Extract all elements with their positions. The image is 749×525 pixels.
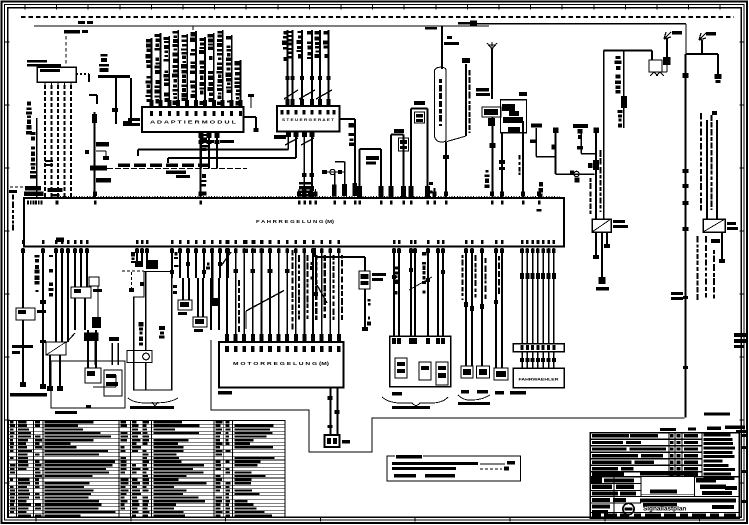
wire from pin turning left y149 (287, 145, 289, 150)
stubs entering FAHRREGELUNG top left cluster (26, 192, 30, 197)
label 4M under battery (123, 121, 131, 126)
labels D1.2 (12, 345, 22, 348)
label above block A100 (27, 60, 47, 63)
border tick marks top (24, 5, 26, 10)
wire x555 vertical (555, 128, 557, 174)
bus line A segment 2 (475, 23, 686, 25)
folgt blatt note (704, 413, 730, 416)
pedal sensor housing 486 (390, 336, 451, 387)
jumper loop P1 over band pins (359, 149, 361, 188)
title block sheet cell (712, 505, 734, 509)
legend line 3 (394, 474, 416, 478)
labels right of enclosure (159, 326, 165, 330)
dashed bus line top (21, 16, 734, 18)
label stack left column (27, 102, 31, 106)
border tick marks left (5, 41, 10, 43)
title block header column lines (668, 433, 670, 476)
switch S1 (16, 308, 35, 320)
system boundary outline (211, 340, 685, 452)
component cluster x84-99 (84, 333, 99, 342)
stub x95 pin (93, 192, 97, 197)
company logo circle (623, 503, 634, 514)
earth arrow symbol above Y511 (487, 42, 497, 49)
connector label 4X4.11 (573, 124, 588, 128)
connector pin blobs at ADAPTIERMODUL top edge (150, 100, 154, 106)
pin numbers FAHRREGELUNG top left (27, 201, 29, 205)
right border marks near title block (741, 434, 747, 437)
wire x116 from battery bar (115, 78, 117, 124)
svg-text:F A H R R E G E L U N G (M): F A H R R E G E L U N G (M) (256, 219, 335, 224)
label K5 (372, 273, 386, 276)
label 486.1 (218, 391, 232, 395)
pin group left C at band bottom (74, 240, 77, 244)
relay K12 wires above (706, 120, 708, 219)
tick labels on left bundle (45, 160, 53, 162)
stub x718 down (717, 54, 719, 76)
title block middle left cells (590, 483, 641, 485)
right exit wire of STEUERGERAET (340, 118, 356, 120)
title block drawing number cell (641, 477, 695, 495)
wire drop x315 (315, 257, 317, 285)
text Bordnetzbatterie (10, 393, 47, 397)
border tick marks right (740, 41, 745, 43)
label stacks above ADAPTIERMODUL wires (146, 39, 151, 42)
stub below 4X4.11 (578, 129, 583, 133)
dashed shield corner (122, 270, 144, 272)
pin group pedal at band bottom (393, 240, 396, 244)
label 4X14 (274, 135, 286, 139)
labels pedal wires (394, 266, 398, 269)
labels 4M1.5 row (200, 140, 214, 143)
mid tick row on FAHRWAEHLER wires (520, 273, 524, 279)
wire down from plug to band (334, 172, 336, 185)
arrow symbol top right 1 (664, 32, 671, 39)
arrow symbol top right 2 (699, 33, 706, 40)
title block header row lines (590, 438, 702, 440)
wire inside enclosure (145, 272, 147, 351)
junction square on arrow1 wire (663, 57, 671, 65)
wire drop from bus A at x442 (441, 26, 443, 70)
wire x95 to FAHRREGELUNG (94, 112, 96, 198)
connector blob x355 at band (353, 183, 358, 196)
label A 1.25 (444, 42, 459, 45)
wire from loop to FAHRREGELUNG x446 (445, 142, 447, 199)
relay K11 (592, 219, 611, 232)
label stacks above STEUERGERAET wires (283, 31, 286, 34)
hook above right exit (250, 97, 252, 108)
link 4X11 to x555 (536, 156, 556, 158)
pin labels between strip and box (521, 352, 523, 369)
labels connector84 wires (461, 255, 463, 258)
relay K2 (46, 342, 66, 355)
wire drop x364 (364, 257, 366, 271)
wire x43 down long (42, 248, 44, 388)
bus line A drop at right end (685, 24, 687, 54)
pin group mid dense at band bottom (171, 240, 174, 244)
title block bottom row (590, 512, 739, 514)
wire cluster x172-228 below band (171, 248, 173, 278)
connector 487 (494, 368, 508, 380)
border tick marks bottom (35, 517, 37, 522)
wires x75-87 down (74, 248, 76, 287)
wire x36 left vertical (36, 118, 38, 197)
labels above bottom pins inside band (56, 238, 64, 242)
connector T3 (178, 300, 192, 310)
wire over to x344 via U (335, 161, 345, 163)
wires above STEUERGERAET (287, 30, 289, 106)
wire x212 to hatched terminal (212, 248, 214, 298)
small box above connector (89, 277, 99, 286)
pin number at x334 band top (334, 201, 337, 205)
wire below solenoid K5 (364, 289, 366, 330)
labels on long wire x685 (671, 292, 683, 295)
wire below K12 right (721, 232, 723, 262)
labels below bus M (166, 171, 186, 175)
valve Y511 actuator (501, 100, 527, 133)
pin group left D at band bottom (136, 240, 139, 244)
inner unit boxes (104, 370, 122, 396)
labels beside K12 wires (700, 113, 702, 119)
label 486 (392, 392, 402, 396)
pin number at x344 band top (343, 201, 346, 205)
bottom stubs STEUERGERAET (287, 132, 289, 146)
wire below sensor B1 (145, 363, 147, 391)
title block revision column dense rows (704, 433, 731, 436)
pin ticks block A100 (44, 82, 46, 85)
label near x460 on bus A (458, 22, 471, 25)
title block frame (590, 433, 739, 519)
pedal inner boxes (395, 358, 407, 378)
hatched terminal blob (211, 298, 221, 306)
wire to connector 817 (481, 248, 483, 366)
wires into MOTORREGELUNG top (226, 248, 228, 342)
valve Y511 side marks (519, 92, 527, 96)
bus line A segment 1 (34, 25, 489, 27)
wire x466 ground branch (465, 64, 467, 136)
housing exit wire (93, 386, 116, 388)
labels inside cable loop (439, 79, 442, 83)
wire from arrow1 down (666, 38, 668, 57)
bus segment top right y50 (604, 50, 652, 52)
op-amp style module box ADAPTIERMODUL (142, 107, 244, 132)
wire bundle from A100 to FAHRREGELUNG dashed (44, 85, 46, 198)
labels along bus M (118, 164, 130, 168)
stub x539 to band (538, 188, 540, 198)
fold mark right border (734, 333, 746, 337)
wire x434 stub to band (434, 188, 436, 198)
wires below Y511 to FAHRREGELUNG (492, 117, 494, 198)
enclosure of pull sensor (134, 272, 172, 391)
pin group fahrwaehler at band bottom (521, 240, 524, 244)
horizontal wire y54 right (686, 53, 718, 55)
tick on bus line A (192, 26, 194, 30)
connector blobs at STEUERGERAET top (286, 99, 290, 105)
wire into Y511 (491, 49, 493, 99)
wires to connector 487 (495, 248, 497, 368)
wires below relay K2 (49, 355, 51, 390)
svg-text:Signallastplan: Signallastplan (643, 506, 686, 513)
cable loop bottom arc (435, 136, 447, 142)
labels on motor wires (298, 255, 300, 262)
labels battery cluster (100, 54, 107, 57)
controller band FAHRREGELUNG (24, 198, 564, 247)
dash line left of band (10, 186, 40, 188)
stub below 4X11 (530, 139, 536, 143)
relay K12 (703, 219, 725, 232)
brace under connectors 84 (458, 395, 490, 400)
sensor B1 with dial (127, 351, 152, 363)
cable loop left arc (435, 67, 447, 71)
brace under pedal unit (382, 397, 448, 406)
connector T4 (193, 317, 207, 327)
wire x131 from battery bar (130, 78, 132, 124)
long wires from STEUERGERAET to FAHRREGELUNG (303, 145, 305, 198)
connector 817 (477, 366, 490, 378)
twist slashes below STEUERGERAET (285, 138, 314, 145)
wires x56-68 down (55, 248, 57, 342)
wire x23 down (22, 248, 24, 308)
label under housing (55, 411, 77, 414)
long boundary wire x685 (685, 54, 687, 418)
jumper loop P3 with component (410, 109, 412, 189)
diagonal link to motor module (245, 311, 247, 329)
twist slashes on STEUERGERAET pairs (284, 90, 332, 99)
left entry labels ADAPTIERMODUL (128, 118, 140, 121)
wire x604 vertical to relay K11 (603, 51, 605, 220)
pin numbers under top stubs mid (433, 201, 436, 205)
wire below fuse (623, 108, 625, 128)
marks above title block (707, 427, 721, 430)
plug circle on link y174 (574, 171, 579, 176)
block A100 (37, 67, 76, 82)
battery bar (98, 75, 130, 78)
device table column lines (16, 421, 18, 518)
label K11 (613, 220, 625, 223)
title block right mid cells (694, 477, 696, 497)
pin numbers inside STEUERGERAET (281, 110, 284, 115)
wire x200 from ADAPTIERMODUL to FAHRREGELUNG (200, 132, 202, 198)
labels on wire x95 (92, 114, 97, 123)
fuse F513 solid (621, 96, 627, 108)
outer housing box left (51, 361, 125, 408)
wire x596 upper vertical (595, 128, 597, 220)
terminal B500 (599, 277, 606, 284)
small hook wire x89 (89, 94, 97, 96)
labels left of K11 wires (589, 178, 591, 182)
label 4X84.1 (510, 391, 526, 395)
wire x315 from band (314, 248, 316, 257)
pin numbers inside ADAPTIERMODUL (150, 111, 153, 116)
link wire y256 (316, 256, 365, 258)
module box MOTORREGELUNG (219, 342, 344, 388)
label streaks on motor left wires (238, 280, 240, 286)
pin group to motor at band bottom (295, 240, 298, 244)
pin group left A at band bottom (22, 240, 25, 244)
wires below MOTORREGELUNG (330, 388, 332, 437)
link 4X4.11 to x596 (581, 153, 596, 155)
cable loop sides (434, 70, 436, 136)
pin numbers inside MOTORREGELUNG (225, 346, 229, 352)
legend box Bemerkungen (387, 456, 521, 481)
text Flg ohne Steuerung (130, 406, 174, 409)
legend line 2 (392, 467, 456, 470)
connector blobs MOTORREGELUNG top (225, 334, 229, 341)
title block extra header marks (630, 434, 658, 437)
relay K3 (71, 287, 91, 298)
small hook wire x96 lower (96, 150, 106, 152)
labels next to wire x466 (468, 70, 470, 76)
pin number at x355 band top (354, 201, 357, 205)
pin group conn487 at band bottom (495, 240, 498, 244)
label right of K12 (727, 222, 736, 225)
right exit wire ADAPTIERMODUL (244, 116, 257, 118)
mid ticks on STEUERGERAET wires (286, 76, 290, 80)
brace under left group (128, 398, 178, 403)
connector label 4X11 (531, 124, 542, 128)
device list table frame (9, 421, 286, 518)
connector on wire x96 (92, 317, 101, 328)
pin group conn84 at band bottom (465, 240, 468, 244)
wire from arrow2 down (701, 40, 703, 54)
pin group left B at band bottom (55, 240, 58, 244)
diagonal at relay K2 (66, 333, 75, 343)
bottom stubs ADAPTIERMODUL (200, 132, 202, 169)
solenoid K5 (359, 271, 370, 289)
wire x623 fuse branch (623, 51, 625, 98)
wires above ADAPTIERMODUL (151, 38, 153, 107)
cable slash x226 (221, 252, 231, 266)
long link y174 to x594 (556, 173, 595, 175)
label above dashed drop (64, 30, 80, 34)
module box STEUERGERAET (277, 106, 340, 132)
svg-text:M O T O R R E G E L U N G (M): M O T O R R E G E L U N G (M) (233, 361, 330, 366)
svg-text:A D A P T I E R M O D U L: A D A P T I E R M O D U L (150, 120, 237, 125)
switch block S2 (85, 368, 101, 383)
title block name row (590, 502, 641, 504)
ticks on long wire x685 (683, 169, 689, 173)
wires mid cluster lower (210, 278, 212, 330)
twist slash pedal (409, 277, 432, 290)
text Fahrped Resonanz (392, 406, 430, 409)
pedal inner connector row (392, 338, 396, 344)
wires to FAHRWAEHLER (521, 248, 523, 344)
label near x425 on bus A (425, 27, 437, 30)
wires below relay K3 (74, 298, 76, 330)
labels on fuse branch (616, 56, 621, 59)
labels below K12 (696, 236, 698, 242)
dashed drop wire to A100 (65, 36, 67, 66)
labels wire x43 (35, 255, 40, 258)
connector T76 (325, 435, 340, 447)
legend title Bemerkungen (395, 455, 423, 460)
device table text entries (10, 421, 13, 423)
component K at x652 (651, 51, 653, 61)
device table row lines (9, 423, 286, 425)
wires x137-147 down to enclosure (136, 248, 138, 266)
legend line 1 (392, 462, 478, 465)
wires to connector 84 (465, 248, 467, 366)
wires below relay K11 (595, 232, 597, 258)
valve Y511 body (482, 107, 501, 117)
label B M on bus line A (78, 21, 85, 24)
connector 84 (461, 366, 473, 378)
plug symbol with circle (322, 171, 345, 173)
stub cluster x299-314 FAHRREGELUNG top (298, 189, 300, 198)
junction marks pedal wires (392, 275, 396, 279)
bus wire M y168 (91, 168, 247, 170)
wire x523 from Y511 right (522, 121, 524, 198)
title block scale row (590, 496, 739, 498)
dashed stub right of A100 (76, 73, 89, 75)
connector blob x344 at band (342, 184, 347, 196)
wires to pedal unit (393, 248, 395, 336)
row under header (592, 472, 624, 476)
left border small labels (12, 190, 14, 193)
junction blobs mid cluster (170, 270, 174, 274)
pin group mid2 at band bottom (245, 240, 248, 244)
label T76 (342, 440, 350, 444)
label Y511 (476, 88, 489, 92)
wire labels left bundle (31, 132, 36, 135)
wire x23 lower (22, 320, 24, 385)
selector box FAHRWAEHLER (513, 368, 564, 388)
tick blobs on motor wires (233, 269, 238, 273)
connector strip 4X84 (513, 344, 564, 352)
svg-text:S T E U E R G E R A E T: S T E U E R G E R A E T (282, 117, 335, 122)
title block header text bars (592, 434, 629, 437)
wire from pin turning left y158 (295, 145, 297, 158)
jumper loop P2 with component (390, 135, 392, 189)
fine tick texture on band top edge (60, 196, 560, 198)
svg-text:FAHRWAEHLER: FAHRWAEHLER (519, 377, 559, 382)
connector cluster on enclosure top (135, 261, 143, 267)
